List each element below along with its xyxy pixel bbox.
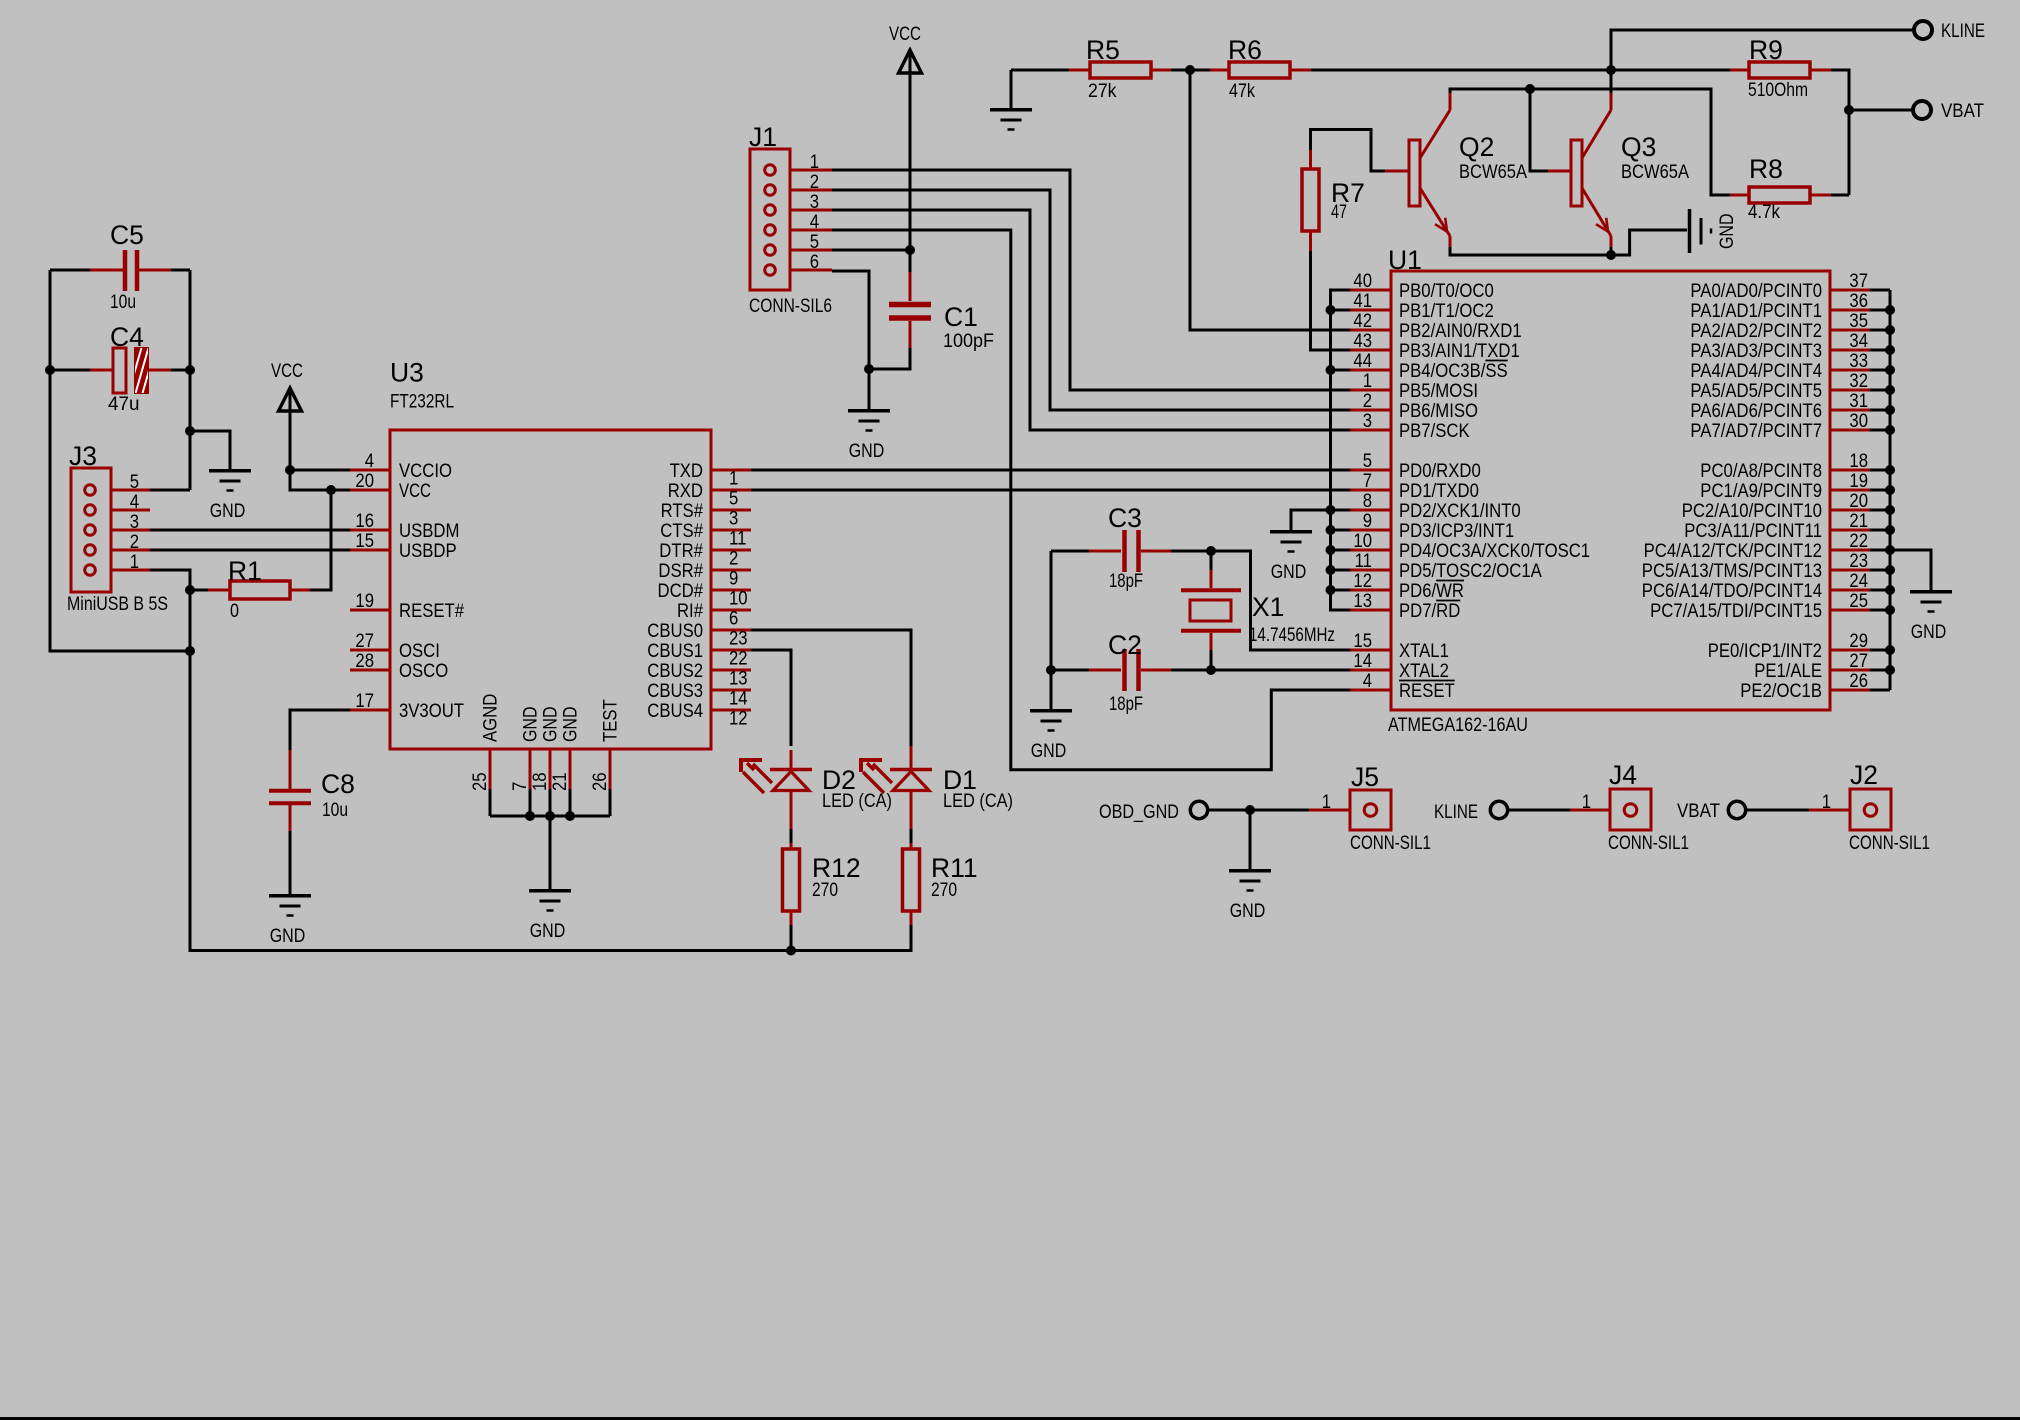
svg-text:510Ohm: 510Ohm — [1748, 80, 1808, 101]
svg-text:R9: R9 — [1749, 35, 1783, 65]
svg-text:47: 47 — [1331, 202, 1347, 223]
svg-text:OSCI: OSCI — [399, 641, 440, 662]
svg-text:Q3: Q3 — [1621, 132, 1656, 162]
svg-text:17: 17 — [355, 691, 374, 712]
svg-text:27: 27 — [355, 631, 374, 652]
svg-text:28: 28 — [355, 651, 374, 672]
svg-text:4.7k: 4.7k — [1748, 202, 1780, 223]
svg-text:4: 4 — [365, 451, 375, 472]
svg-text:11: 11 — [729, 529, 746, 550]
svg-text:GND: GND — [1911, 622, 1947, 643]
svg-text:KLINE: KLINE — [1434, 802, 1478, 823]
svg-text:VCCIO: VCCIO — [399, 461, 452, 482]
svg-text:1: 1 — [810, 152, 819, 173]
svg-text:3: 3 — [130, 512, 139, 533]
svg-text:GND: GND — [210, 501, 246, 522]
svg-text:20: 20 — [1849, 491, 1868, 512]
svg-text:8: 8 — [1363, 491, 1372, 512]
svg-text:6: 6 — [810, 252, 819, 273]
svg-text:PB4/OC3B/SS: PB4/OC3B/SS — [1399, 361, 1508, 382]
svg-text:PB0/T0/OC0: PB0/T0/OC0 — [1399, 281, 1494, 302]
svg-text:1: 1 — [130, 552, 139, 573]
svg-text:DSR#: DSR# — [658, 561, 703, 582]
svg-text:CONN-SIL1: CONN-SIL1 — [1350, 833, 1431, 854]
svg-text:BCW65A: BCW65A — [1459, 162, 1527, 183]
svg-text:KLINE: KLINE — [1941, 21, 1985, 42]
svg-text:27: 27 — [1849, 651, 1868, 672]
svg-text:PD4/OC3A/XCK0/TOSC1: PD4/OC3A/XCK0/TOSC1 — [1399, 541, 1590, 562]
svg-text:DCD#: DCD# — [658, 581, 704, 602]
svg-text:5: 5 — [130, 472, 139, 493]
svg-text:USBDM: USBDM — [399, 521, 459, 542]
svg-text:10u: 10u — [110, 292, 136, 313]
svg-text:PB2/AIN0/RXD1: PB2/AIN0/RXD1 — [1399, 321, 1522, 342]
svg-text:25: 25 — [470, 772, 491, 791]
svg-text:R8: R8 — [1749, 154, 1783, 184]
svg-text:3: 3 — [810, 192, 819, 213]
svg-text:MiniUSB B 5S: MiniUSB B 5S — [67, 594, 168, 615]
svg-text:9: 9 — [1363, 511, 1372, 532]
svg-text:GND: GND — [270, 926, 306, 947]
svg-text:C8: C8 — [321, 769, 355, 799]
svg-text:33: 33 — [1849, 351, 1868, 372]
svg-text:PE1/ALE: PE1/ALE — [1754, 661, 1822, 682]
svg-text:U1: U1 — [1388, 245, 1422, 275]
svg-text:4: 4 — [1363, 671, 1373, 692]
svg-text:AGND: AGND — [481, 694, 502, 742]
svg-text:OSCO: OSCO — [399, 661, 448, 682]
svg-text:PB1/T1/OC2: PB1/T1/OC2 — [1399, 301, 1494, 322]
svg-text:19: 19 — [1849, 471, 1868, 492]
svg-text:J4: J4 — [1609, 760, 1637, 790]
svg-text:CBUS1: CBUS1 — [647, 641, 703, 662]
svg-text:PC7/A15/TDI/PCINT15: PC7/A15/TDI/PCINT15 — [1650, 601, 1822, 622]
svg-text:PA3/AD3/PCINT3: PA3/AD3/PCINT3 — [1690, 341, 1822, 362]
svg-text:14: 14 — [1353, 651, 1372, 672]
svg-text:J5: J5 — [1351, 762, 1379, 792]
svg-text:GND: GND — [541, 707, 562, 743]
svg-text:C2: C2 — [1108, 630, 1142, 660]
svg-text:18: 18 — [1849, 451, 1868, 472]
svg-text:CBUS4: CBUS4 — [647, 701, 703, 722]
svg-text:VBAT: VBAT — [1941, 101, 1984, 122]
svg-text:4: 4 — [130, 492, 140, 513]
svg-text:RESET: RESET — [1399, 681, 1455, 702]
svg-text:47k: 47k — [1229, 81, 1255, 102]
svg-text:3: 3 — [729, 509, 738, 530]
svg-text:2: 2 — [810, 172, 819, 193]
svg-text:31: 31 — [1849, 391, 1868, 412]
svg-text:RI#: RI# — [677, 601, 703, 622]
svg-text:J3: J3 — [69, 441, 97, 471]
svg-text:LED (CA): LED (CA) — [943, 791, 1013, 812]
svg-text:0: 0 — [230, 601, 239, 622]
svg-text:CONN-SIL6: CONN-SIL6 — [749, 296, 832, 317]
svg-text:35: 35 — [1849, 311, 1868, 332]
svg-text:43: 43 — [1353, 331, 1372, 352]
svg-text:GND: GND — [561, 707, 582, 743]
svg-text:15: 15 — [1353, 631, 1372, 652]
svg-text:GND: GND — [521, 707, 542, 743]
svg-text:5: 5 — [729, 489, 738, 510]
svg-text:PC2/A10/PCINT10: PC2/A10/PCINT10 — [1682, 501, 1822, 522]
svg-text:1: 1 — [1582, 792, 1591, 813]
svg-text:C1: C1 — [944, 302, 978, 332]
svg-text:12: 12 — [729, 709, 748, 730]
svg-text:36: 36 — [1849, 291, 1868, 312]
svg-text:10: 10 — [729, 589, 748, 610]
svg-text:44: 44 — [1353, 351, 1372, 372]
svg-text:PD3/ICP3/INT1: PD3/ICP3/INT1 — [1399, 521, 1514, 542]
svg-text:16: 16 — [355, 511, 374, 532]
svg-text:VCC: VCC — [399, 481, 431, 502]
svg-text:27k: 27k — [1088, 81, 1117, 102]
svg-text:2: 2 — [729, 549, 738, 570]
svg-text:PE2/OC1B: PE2/OC1B — [1740, 681, 1822, 702]
svg-text:VCC: VCC — [271, 361, 303, 382]
svg-text:GND: GND — [1271, 562, 1307, 583]
svg-text:PB3/AIN1/TXD1: PB3/AIN1/TXD1 — [1399, 341, 1520, 362]
svg-text:14: 14 — [729, 689, 748, 710]
svg-text:41: 41 — [1353, 291, 1372, 312]
svg-text:U3: U3 — [390, 358, 424, 388]
svg-text:PD5/TOSC2/OC1A: PD5/TOSC2/OC1A — [1399, 561, 1542, 582]
svg-text:PB5/MOSI: PB5/MOSI — [1399, 381, 1478, 402]
svg-text:13: 13 — [1353, 591, 1372, 612]
svg-text:10: 10 — [1353, 531, 1372, 552]
svg-text:TEST: TEST — [601, 699, 622, 742]
svg-text:15: 15 — [355, 531, 374, 552]
svg-text:30: 30 — [1849, 411, 1868, 432]
svg-text:7: 7 — [1363, 471, 1372, 492]
svg-text:Q2: Q2 — [1459, 132, 1494, 162]
svg-text:2: 2 — [130, 532, 139, 553]
svg-text:RXD: RXD — [668, 481, 703, 502]
svg-text:18pF: 18pF — [1109, 694, 1143, 715]
svg-text:GND: GND — [530, 921, 566, 942]
svg-text:PA1/AD1/PCINT1: PA1/AD1/PCINT1 — [1690, 301, 1822, 322]
svg-text:PC0/A8/PCINT8: PC0/A8/PCINT8 — [1700, 461, 1822, 482]
svg-text:CBUS2: CBUS2 — [647, 661, 703, 682]
svg-text:XTAL2: XTAL2 — [1399, 661, 1449, 682]
svg-text:7: 7 — [510, 782, 531, 791]
svg-text:PA0/AD0/PCINT0: PA0/AD0/PCINT0 — [1690, 281, 1822, 302]
svg-text:20: 20 — [355, 471, 374, 492]
svg-text:TXD: TXD — [670, 461, 703, 482]
svg-text:6: 6 — [729, 609, 738, 630]
svg-text:PE0/ICP1/INT2: PE0/ICP1/INT2 — [1708, 641, 1822, 662]
svg-text:29: 29 — [1849, 631, 1868, 652]
svg-text:RTS#: RTS# — [661, 501, 704, 522]
svg-text:26: 26 — [590, 772, 611, 791]
svg-text:PC4/A12/TCK/PCINT12: PC4/A12/TCK/PCINT12 — [1644, 541, 1822, 562]
svg-text:5: 5 — [1363, 451, 1372, 472]
svg-text:3: 3 — [1363, 411, 1372, 432]
svg-text:PA6/AD6/PCINT6: PA6/AD6/PCINT6 — [1690, 401, 1822, 422]
svg-text:PD6/WR: PD6/WR — [1399, 581, 1464, 602]
svg-text:100pF: 100pF — [943, 331, 994, 352]
svg-text:14.7456MHz: 14.7456MHz — [1249, 625, 1335, 646]
svg-text:18: 18 — [530, 772, 551, 791]
svg-text:J1: J1 — [749, 122, 777, 152]
svg-text:PC6/A14/TDO/PCINT14: PC6/A14/TDO/PCINT14 — [1642, 581, 1823, 602]
svg-text:FT232RL: FT232RL — [390, 392, 454, 413]
svg-text:9: 9 — [729, 569, 738, 590]
svg-text:270: 270 — [931, 880, 957, 901]
svg-text:X1: X1 — [1252, 592, 1284, 622]
svg-text:GND: GND — [849, 441, 885, 462]
svg-text:34: 34 — [1849, 331, 1868, 352]
svg-text:32: 32 — [1849, 371, 1868, 392]
svg-text:BCW65A: BCW65A — [1621, 162, 1689, 183]
svg-text:PC3/A11/PCINT11: PC3/A11/PCINT11 — [1684, 521, 1822, 542]
svg-text:40: 40 — [1353, 271, 1372, 292]
svg-text:270: 270 — [812, 880, 838, 901]
svg-text:1: 1 — [729, 469, 738, 490]
svg-text:1: 1 — [1322, 792, 1331, 813]
svg-text:RESET#: RESET# — [399, 601, 464, 622]
svg-text:PD1/TXD0: PD1/TXD0 — [1399, 481, 1479, 502]
svg-text:PC5/A13/TMS/PCINT13: PC5/A13/TMS/PCINT13 — [1642, 561, 1822, 582]
svg-text:1: 1 — [1363, 371, 1372, 392]
svg-text:LED (CA): LED (CA) — [822, 791, 892, 812]
svg-text:4: 4 — [810, 212, 820, 233]
svg-text:42: 42 — [1353, 311, 1372, 332]
svg-text:21: 21 — [550, 772, 571, 791]
svg-text:2: 2 — [1363, 391, 1372, 412]
svg-text:PA7/AD7/PCINT7: PA7/AD7/PCINT7 — [1690, 421, 1822, 442]
svg-text:23: 23 — [729, 629, 748, 650]
svg-text:C5: C5 — [110, 220, 144, 250]
svg-text:12: 12 — [1353, 571, 1372, 592]
svg-text:PB6/MISO: PB6/MISO — [1399, 401, 1478, 422]
svg-text:GND: GND — [1717, 214, 1738, 250]
svg-text:11: 11 — [1355, 551, 1372, 572]
svg-text:R6: R6 — [1228, 35, 1262, 65]
svg-text:18pF: 18pF — [1109, 571, 1143, 592]
svg-text:CTS#: CTS# — [660, 521, 703, 542]
svg-text:R5: R5 — [1086, 35, 1120, 65]
svg-text:PD7/RD: PD7/RD — [1399, 601, 1460, 622]
svg-text:PD2/XCK1/INT0: PD2/XCK1/INT0 — [1399, 501, 1521, 522]
svg-text:22: 22 — [729, 649, 748, 670]
svg-text:R11: R11 — [931, 853, 978, 883]
svg-text:R1: R1 — [228, 556, 262, 586]
svg-text:PA5/AD5/PCINT5: PA5/AD5/PCINT5 — [1690, 381, 1822, 402]
svg-text:C3: C3 — [1108, 503, 1142, 533]
svg-text:VCC: VCC — [889, 24, 921, 45]
svg-text:PC1/A9/PCINT9: PC1/A9/PCINT9 — [1700, 481, 1822, 502]
svg-text:1: 1 — [1822, 792, 1831, 813]
svg-text:OBD_GND: OBD_GND — [1099, 802, 1179, 823]
svg-text:PA4/AD4/PCINT4: PA4/AD4/PCINT4 — [1690, 361, 1822, 382]
svg-text:19: 19 — [355, 591, 374, 612]
svg-text:CBUS3: CBUS3 — [647, 681, 703, 702]
svg-text:37: 37 — [1849, 271, 1868, 292]
svg-text:CONN-SIL1: CONN-SIL1 — [1849, 833, 1930, 854]
svg-text:DTR#: DTR# — [659, 541, 703, 562]
svg-text:3V3OUT: 3V3OUT — [399, 701, 464, 722]
svg-text:26: 26 — [1849, 671, 1868, 692]
svg-text:24: 24 — [1849, 571, 1868, 592]
svg-text:5: 5 — [810, 232, 819, 253]
svg-text:13: 13 — [729, 669, 748, 690]
svg-text:XTAL1: XTAL1 — [1399, 641, 1449, 662]
svg-text:GND: GND — [1031, 741, 1067, 762]
svg-text:PD0/RXD0: PD0/RXD0 — [1399, 461, 1481, 482]
svg-text:47u: 47u — [108, 394, 140, 415]
svg-text:PA2/AD2/PCINT2: PA2/AD2/PCINT2 — [1690, 321, 1822, 342]
svg-text:23: 23 — [1849, 551, 1868, 572]
svg-text:CONN-SIL1: CONN-SIL1 — [1608, 833, 1689, 854]
svg-text:GND: GND — [1230, 901, 1266, 922]
svg-text:22: 22 — [1849, 531, 1868, 552]
svg-text:25: 25 — [1849, 591, 1868, 612]
svg-text:VBAT: VBAT — [1677, 801, 1720, 822]
svg-text:C4: C4 — [110, 322, 144, 352]
svg-text:21: 21 — [1849, 511, 1868, 532]
svg-text:J2: J2 — [1850, 760, 1878, 790]
svg-text:CBUS0: CBUS0 — [647, 621, 703, 642]
svg-text:USBDP: USBDP — [399, 541, 457, 562]
svg-text:10u: 10u — [322, 800, 348, 821]
svg-text:ATMEGA162-16AU: ATMEGA162-16AU — [1388, 715, 1528, 736]
svg-text:R12: R12 — [812, 853, 861, 883]
svg-text:PB7/SCK: PB7/SCK — [1399, 421, 1470, 442]
